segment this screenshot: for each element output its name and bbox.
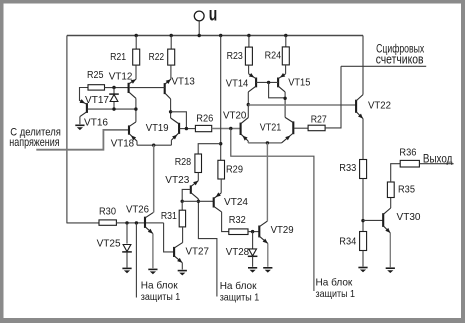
svg-text:защиты 1: защиты 1 bbox=[220, 292, 260, 304]
diode VT28 bottom lead bbox=[252, 257, 254, 267]
node rail-R23 bbox=[247, 34, 250, 37]
svg-text:R36: R36 bbox=[399, 148, 416, 159]
transistor VT12 bbox=[129, 79, 136, 98]
node R33-R34-VT30 bbox=[361, 219, 364, 222]
diode VT28 top lead bbox=[252, 232, 254, 250]
node rail-R24 bbox=[284, 34, 287, 37]
svg-text:R24: R24 bbox=[265, 51, 282, 62]
resistor R27 bbox=[308, 125, 325, 131]
wire input from divider bbox=[36, 130, 128, 150]
wire VT27 base L bbox=[164, 223, 175, 252]
svg-text:R31: R31 bbox=[161, 211, 177, 222]
transistor VT20 bbox=[241, 118, 249, 141]
transistor VT22 bbox=[356, 95, 363, 119]
terminal u circle bbox=[194, 11, 204, 21]
node VT17 bottom bbox=[112, 107, 115, 110]
svg-text:VT18: VT18 bbox=[111, 139, 135, 150]
node R28 branch bbox=[219, 142, 222, 145]
svg-text:VT27: VT27 bbox=[186, 247, 210, 258]
node diff pair tail bbox=[152, 144, 155, 147]
svg-text:R29: R29 bbox=[226, 165, 243, 176]
diode VT28 bbox=[248, 249, 258, 256]
wire R28 branch bbox=[198, 144, 221, 154]
wire VT23 base L bbox=[182, 189, 190, 201]
svg-text:VT20: VT20 bbox=[223, 111, 247, 122]
svg-text:R26: R26 bbox=[196, 113, 213, 124]
node rail-R22 bbox=[170, 34, 173, 37]
svg-text:u: u bbox=[209, 5, 218, 26]
svg-text:VT16: VT16 bbox=[84, 118, 108, 129]
svg-text:R23: R23 bbox=[227, 51, 244, 62]
svg-text:VT14: VT14 bbox=[226, 78, 249, 89]
wire VT14-VT15 base bus bbox=[256, 81, 278, 83]
wire VT23 collector down protection 2 bbox=[198, 199, 217, 297]
ground R34 bbox=[358, 268, 367, 273]
wire R32 right bbox=[248, 231, 259, 233]
wire top power rail bbox=[67, 35, 363, 37]
svg-text:R28: R28 bbox=[175, 157, 192, 168]
resistor R24 bbox=[282, 47, 289, 65]
wire base bus to VT24 bbox=[182, 200, 213, 202]
transistor VT19 bbox=[171, 118, 180, 140]
diode VT17 bottom lead bbox=[113, 102, 115, 109]
wire emitter bus VT20-VT21 bbox=[248, 142, 281, 144]
svg-text:R32: R32 bbox=[229, 215, 246, 226]
wire VT19 base to R26 bbox=[180, 128, 196, 130]
transistor VT15 bbox=[278, 73, 286, 92]
svg-text:VT15: VT15 bbox=[288, 78, 311, 89]
resistor R28 bbox=[195, 154, 202, 173]
node R32-VT28-VT29 bbox=[251, 230, 254, 233]
svg-text:R27: R27 bbox=[311, 114, 327, 125]
wire VT19 emitter drop bbox=[170, 140, 172, 145]
wire R23 top bbox=[248, 36, 250, 48]
transistor VT29 bbox=[259, 221, 268, 243]
transistor VT18 bbox=[129, 122, 137, 141]
wire R26 right to VT20 bbox=[212, 128, 241, 130]
ground VT25 bbox=[122, 268, 131, 273]
wire VT15 diode loop bbox=[269, 82, 286, 97]
wire protection 1 line bbox=[135, 223, 137, 298]
diode VT25 bottom lead bbox=[126, 252, 128, 267]
svg-text:R22: R22 bbox=[149, 52, 165, 63]
node rail-R21 bbox=[135, 34, 138, 37]
node VT14-VT20 collector bbox=[247, 103, 250, 106]
ground VT30 bbox=[386, 268, 395, 273]
svg-text:VT23: VT23 bbox=[165, 175, 189, 186]
diode VT25 bbox=[122, 245, 132, 252]
svg-text:защиты 1: защиты 1 bbox=[316, 288, 356, 300]
diode VT17 top lead bbox=[113, 88, 115, 95]
node VT23 base-R31 bbox=[181, 200, 184, 203]
node VT12 collector-VT16 line bbox=[134, 107, 137, 110]
svg-text:R34: R34 bbox=[339, 237, 356, 248]
svg-text:R25: R25 bbox=[87, 70, 104, 81]
transistor VT13 bbox=[165, 79, 171, 99]
diode VT17 bbox=[109, 94, 119, 101]
resistor R30 bbox=[99, 220, 116, 225]
resistor R33 bbox=[360, 160, 367, 179]
svg-text:VT28: VT28 bbox=[226, 247, 250, 258]
resistor R21 bbox=[133, 49, 140, 65]
transistor VT14 bbox=[248, 73, 256, 92]
wire VT29 emitter to ground bbox=[267, 243, 269, 266]
wire R22 bottom bbox=[170, 65, 172, 79]
wire u stub bbox=[198, 21, 200, 36]
svg-text:счетчиков: счетчиков bbox=[376, 53, 424, 67]
wire R24 top bbox=[285, 36, 287, 47]
diode VT25 top lead bbox=[126, 223, 128, 244]
wire R28 bottom to VT23 emitter bbox=[197, 173, 199, 181]
wire VT29 collector line bbox=[266, 143, 268, 221]
transistor VT27 bbox=[174, 243, 183, 263]
svg-text:защиты 1: защиты 1 bbox=[141, 291, 181, 303]
wire VT21 base to R27 bbox=[294, 127, 308, 129]
resistor R36 bbox=[400, 160, 419, 167]
svg-text:VT26: VT26 bbox=[126, 205, 149, 216]
svg-text:R30: R30 bbox=[99, 207, 116, 218]
wire R21 bottom bbox=[135, 65, 137, 79]
resistor R35 bbox=[387, 182, 394, 198]
resistor R34 bbox=[360, 232, 367, 251]
wire VT24 collector to R32 bbox=[222, 212, 229, 232]
wire VT13 collector down bbox=[170, 99, 172, 118]
wire VT18 emitter drop bbox=[136, 141, 138, 145]
wire VT20 emitter drop bbox=[247, 141, 249, 143]
wire center line rail to R29 bbox=[220, 36, 222, 161]
node VT20-VT21 emitters bbox=[266, 141, 269, 144]
wire R25 right to VT12 bbox=[105, 87, 129, 89]
wire VT20 base to protection 3 bbox=[231, 129, 314, 292]
wire R34 bottom bbox=[362, 251, 364, 267]
wire diode-connect loop VT19 bbox=[171, 112, 187, 129]
resistor R32 bbox=[229, 229, 248, 235]
svg-text:VT25: VT25 bbox=[97, 239, 121, 250]
svg-text:R21: R21 bbox=[110, 52, 126, 63]
node R25-VT17 bbox=[112, 86, 115, 89]
wire left to R30 bbox=[67, 222, 99, 224]
node base center VT14-VT15 bbox=[267, 81, 270, 84]
svg-text:VT13: VT13 bbox=[172, 77, 196, 88]
wire R21 top bbox=[135, 36, 137, 50]
wire R30 right bus bbox=[116, 222, 163, 224]
node VT15 collector bbox=[283, 97, 286, 100]
wire rail to VT22 collector bbox=[362, 36, 364, 95]
resistor R26 bbox=[195, 125, 211, 131]
wire VT30 base bbox=[363, 219, 383, 221]
svg-text:R33: R33 bbox=[339, 163, 356, 174]
wire R31 bottom to VT27 bbox=[182, 227, 184, 243]
node R30-VT25 bbox=[125, 221, 128, 224]
node feedback-base bbox=[185, 127, 188, 130]
wire R24 bottom bbox=[285, 65, 287, 74]
svg-text:VT22: VT22 bbox=[368, 100, 391, 111]
transistor VT16 bbox=[80, 99, 87, 117]
svg-text:Выход: Выход bbox=[423, 154, 453, 166]
svg-text:R35: R35 bbox=[398, 185, 415, 196]
wire R27 right up bbox=[325, 66, 341, 128]
svg-text:VT12: VT12 bbox=[109, 72, 133, 83]
wire VT30 collector to R35 bbox=[390, 198, 392, 209]
wire VT16 base line bbox=[88, 108, 137, 110]
resistor R31 bbox=[179, 210, 185, 227]
svg-text:напряжения: напряжения bbox=[9, 135, 59, 149]
resistor R22 bbox=[168, 49, 175, 65]
wire R23 bottom bbox=[248, 65, 250, 74]
transistor VT21 bbox=[282, 117, 294, 142]
wire R22 top bbox=[170, 36, 172, 50]
transistor VT23 bbox=[191, 181, 199, 199]
resistor R23 bbox=[245, 47, 252, 65]
ground VT27 bbox=[178, 271, 187, 276]
node VT13-VT19 collector bbox=[169, 110, 172, 113]
svg-text:VT24: VT24 bbox=[224, 197, 248, 208]
node rail-u bbox=[198, 34, 201, 37]
svg-text:VT21: VT21 bbox=[260, 123, 282, 134]
node VT23 collector-base wire bbox=[197, 200, 200, 203]
wire left branch down bbox=[66, 36, 68, 224]
wire VT27 emitter to ground bbox=[181, 263, 183, 270]
wire VT22 emitter to R33 bbox=[362, 119, 364, 160]
svg-text:VT29: VT29 bbox=[271, 225, 294, 236]
wire VT15 collector down bbox=[284, 92, 286, 118]
svg-text:На блок: На блок bbox=[316, 276, 353, 288]
svg-text:На блок: На блок bbox=[141, 279, 178, 291]
wire VT12 collector down bbox=[135, 98, 137, 122]
wire VT16 collector to ground bbox=[79, 117, 81, 125]
ground VT16 bbox=[75, 125, 84, 130]
transistor VT30 bbox=[383, 208, 391, 233]
node R26-VT20 base bbox=[229, 127, 232, 130]
ground VT29 bbox=[263, 268, 272, 273]
wire R29 bottom to VT24 bbox=[220, 179, 222, 193]
wire VT14 collector to VT22 base bbox=[248, 104, 355, 106]
wire VT14 collector down bbox=[247, 92, 249, 118]
wire tail current line bbox=[153, 145, 155, 212]
wire R25 left bbox=[80, 88, 89, 101]
transistor VT26 bbox=[145, 212, 153, 233]
ground VT26 bbox=[148, 269, 157, 274]
node rail-center line bbox=[219, 34, 222, 37]
ground VT28 bbox=[248, 268, 257, 273]
wire R33 to R34 bbox=[362, 179, 364, 232]
wire R35 top to R36 bbox=[391, 164, 401, 182]
wire digital counters line bbox=[341, 65, 426, 67]
svg-text:На блок: На блок bbox=[220, 280, 257, 292]
resistor R25 bbox=[88, 85, 105, 90]
wire VT12-VT13 base bus bbox=[129, 87, 165, 89]
wire VT26 emitter to ground bbox=[152, 234, 154, 269]
node protection1 branch bbox=[135, 221, 138, 224]
wire emitter bus VT18-VT19 bbox=[137, 144, 171, 146]
transistor VT24 bbox=[214, 192, 222, 212]
svg-text:VT17: VT17 bbox=[85, 95, 109, 106]
svg-text:VT30: VT30 bbox=[397, 212, 421, 223]
wire output bbox=[419, 163, 453, 165]
resistor R29 bbox=[218, 160, 225, 179]
wire R31 top link bbox=[181, 201, 183, 210]
svg-text:VT19: VT19 bbox=[146, 123, 169, 134]
wire VT30 emitter to ground bbox=[389, 233, 391, 267]
